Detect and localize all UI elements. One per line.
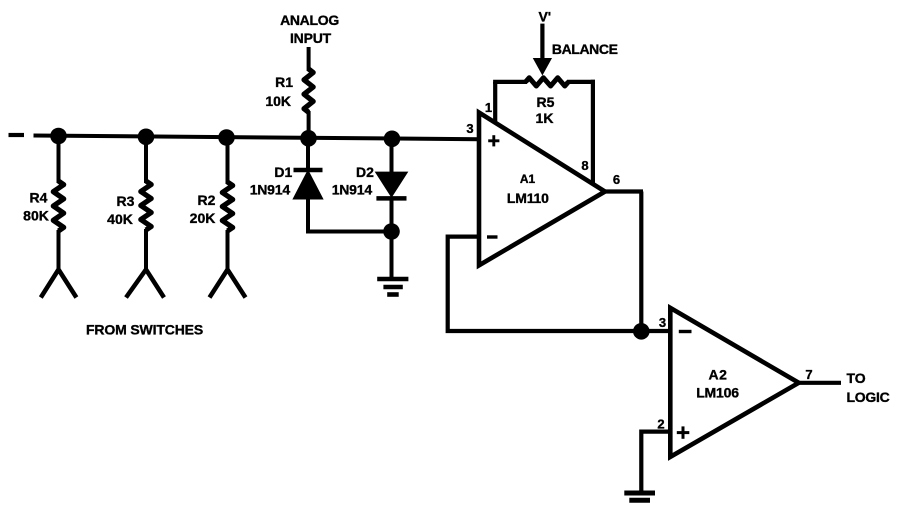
svg-text:10K: 10K bbox=[265, 93, 291, 109]
svg-text:6: 6 bbox=[613, 172, 620, 187]
svg-text:1N914: 1N914 bbox=[332, 182, 373, 198]
svg-text:1: 1 bbox=[485, 100, 492, 115]
svg-text:BALANCE: BALANCE bbox=[552, 41, 618, 57]
svg-text:R4: R4 bbox=[30, 190, 48, 206]
svg-text:FROM SWITCHES: FROM SWITCHES bbox=[86, 322, 203, 338]
svg-text:20K: 20K bbox=[190, 210, 216, 226]
svg-text:2: 2 bbox=[657, 417, 664, 432]
svg-text:3: 3 bbox=[466, 121, 473, 136]
svg-text:LOGIC: LOGIC bbox=[847, 389, 890, 405]
svg-text:INPUT: INPUT bbox=[290, 30, 332, 46]
svg-text:TO: TO bbox=[847, 370, 866, 386]
svg-text:A2: A2 bbox=[709, 367, 728, 383]
svg-text:8: 8 bbox=[581, 158, 588, 173]
svg-text:LM106: LM106 bbox=[696, 385, 739, 401]
svg-text:R1: R1 bbox=[275, 74, 293, 90]
svg-text:ANALOG: ANALOG bbox=[280, 12, 339, 28]
svg-text:D1: D1 bbox=[274, 164, 292, 180]
svg-text:1K: 1K bbox=[536, 110, 554, 126]
svg-text:R3: R3 bbox=[117, 193, 135, 209]
svg-text:3: 3 bbox=[659, 315, 666, 330]
svg-text:40K: 40K bbox=[107, 211, 133, 227]
svg-text:R2: R2 bbox=[198, 192, 216, 208]
svg-text:R5: R5 bbox=[537, 94, 555, 110]
svg-text:A1: A1 bbox=[520, 172, 536, 186]
svg-text:7: 7 bbox=[805, 367, 812, 382]
svg-text:80K: 80K bbox=[23, 208, 49, 224]
svg-text:1N914: 1N914 bbox=[250, 182, 291, 198]
svg-text:D2: D2 bbox=[356, 164, 374, 180]
svg-text:V': V' bbox=[538, 8, 551, 24]
svg-text:LM110: LM110 bbox=[507, 190, 549, 206]
